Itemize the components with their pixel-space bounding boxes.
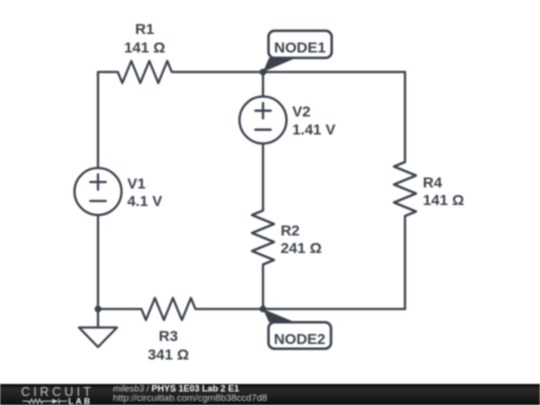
svg-text:http://circuitlab.com/cgm8b38c: http://circuitlab.com/cgm8b38ccd7d8 [113,393,267,404]
svg-text:LAB: LAB [68,396,92,405]
svg-text:4.1 V: 4.1 V [127,193,162,210]
svg-text:NODE1: NODE1 [274,40,326,57]
svg-text:141 Ω: 141 Ω [124,40,165,57]
svg-text:R2: R2 [281,223,300,240]
svg-text:V1: V1 [127,176,145,193]
svg-text:241 Ω: 241 Ω [281,240,322,257]
svg-text:341 Ω: 341 Ω [148,347,189,364]
svg-text:R3: R3 [159,328,178,345]
svg-text:V2: V2 [292,104,310,121]
svg-text:1.41 V: 1.41 V [292,122,335,139]
svg-text:R4: R4 [423,174,443,191]
svg-text:R1: R1 [135,21,154,38]
svg-text:NODE2: NODE2 [274,331,326,348]
svg-text:141 Ω: 141 Ω [423,192,464,209]
